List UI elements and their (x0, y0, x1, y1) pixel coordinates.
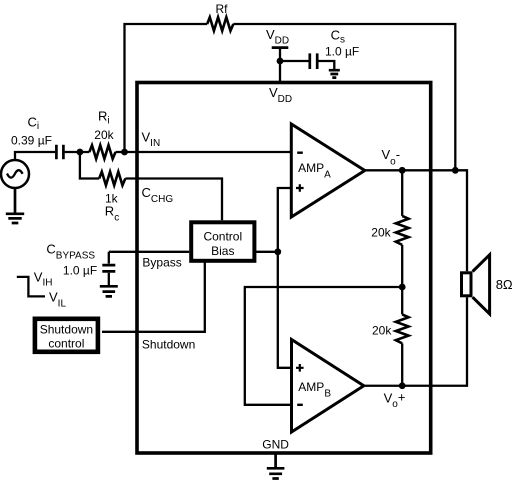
wire: Rc branch (80, 152, 222, 220)
capacitor Cs (310, 53, 317, 69)
resistor Rf (207, 17, 233, 31)
node Vo+ junction (399, 382, 406, 389)
Shutdown control box (35, 319, 98, 352)
VIH VIL step symbol (17, 277, 45, 297)
resistor Ri (89, 145, 115, 159)
op-amp AMPB (292, 340, 364, 433)
minus (AMPA) (297, 151, 303, 153)
speaker (462, 273, 472, 296)
resistor 20k lower (396, 314, 409, 343)
plus (AMPB) (296, 364, 304, 372)
svg-text:control: control (48, 337, 84, 351)
node feedback junction (452, 167, 459, 174)
plus (AMPA) (296, 184, 304, 192)
svg-text:Control: Control (203, 229, 242, 243)
ground (main) (274, 453, 277, 467)
wire: bias to amps (254, 188, 290, 368)
node input junction (77, 149, 84, 156)
op-amp AMPA (291, 124, 365, 217)
capacitor CBYPASS (108, 252, 110, 264)
svg-text:Shutdown: Shutdown (40, 323, 93, 337)
svg-text:Bias: Bias (211, 244, 234, 258)
wire: top feedback rail (125, 24, 456, 170)
svg-text:20k: 20k (371, 226, 391, 240)
node VDD junction (277, 58, 284, 65)
wire: shutdown (102, 261, 205, 332)
ground (Cs) (329, 70, 340, 77)
node bias junction (274, 248, 281, 255)
wire: mid node to AMPB minus (245, 287, 402, 405)
wire: 20k divider chain (401, 170, 403, 385)
minus (AMPB) (297, 404, 303, 406)
resistor 20k upper (396, 216, 409, 245)
wire: bypass (109, 251, 189, 253)
node VIN junction (121, 149, 128, 156)
svg-text:1.0 µF: 1.0 µF (63, 263, 97, 277)
capacitor Ci (56, 145, 63, 159)
wire: Ci to VIN node and amp A minus (65, 151, 291, 153)
svg-text:1.0 µF: 1.0 µF (325, 45, 359, 59)
wire: VDD to Cs (280, 61, 334, 70)
svg-text:Shutdown: Shutdown (142, 338, 195, 352)
signal source VS (1, 160, 29, 188)
svg-text:GND: GND (262, 437, 289, 451)
svg-text:Rf: Rf (216, 2, 229, 16)
IC boundary box (137, 83, 431, 454)
wire: source to Ci (15, 152, 55, 160)
resistor Rc (99, 172, 125, 186)
svg-text:20k: 20k (94, 128, 114, 142)
svg-text:Bypass: Bypass (142, 255, 181, 269)
Control Bias box (191, 222, 254, 260)
ground (CBYPASS) (100, 286, 118, 296)
wire: AMPB output to speaker (364, 297, 467, 385)
node mid junction (399, 284, 406, 291)
wire: AMPA output to speaker (365, 170, 467, 271)
svg-text:8Ω: 8Ω (496, 277, 512, 292)
svg-text:20k: 20k (372, 324, 392, 338)
VDD supply rail (272, 46, 289, 49)
ground (source) (14, 188, 17, 213)
node Vo- junction (399, 167, 406, 174)
svg-text:0.39 µF: 0.39 µF (11, 134, 52, 148)
